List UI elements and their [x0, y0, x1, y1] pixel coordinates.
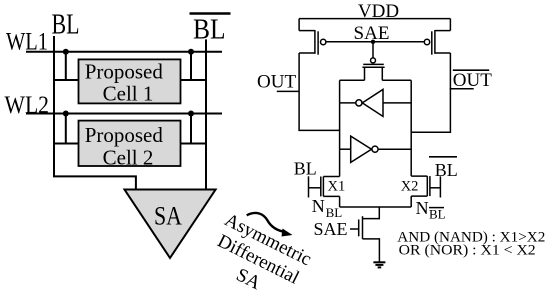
op-amp SA sense amplifier triangle: [125, 190, 216, 259]
wire OUT stub: [277, 90, 299, 92]
wire BLbar rail: [205, 39, 207, 189]
wire latch box right edge: [410, 80, 412, 176]
svg-text:Proposed: Proposed: [85, 60, 164, 84]
annotation Asymmetric Differential SA: [202, 210, 315, 291]
svg-text:BL: BL: [435, 160, 458, 180]
svg-text:X2: X2: [401, 178, 419, 194]
svg-text:VDD: VDD: [358, 1, 399, 22]
wire WL2: [26, 113, 222, 115]
node WL2-left junction: [63, 111, 69, 117]
node WL1-left junction: [63, 49, 69, 55]
label NBL: [312, 196, 342, 220]
wire cell1 right drop: [190, 52, 192, 80]
wire cell2 right drop: [190, 114, 192, 144]
node SAE junction: [371, 40, 375, 44]
svg-text:WL1: WL1: [6, 29, 48, 56]
transistor X1 NMOS pass left: [309, 176, 340, 207]
wire OUTbar stub: [450, 88, 474, 90]
svg-text:BL: BL: [52, 9, 80, 40]
wire WL1: [26, 51, 222, 53]
wire OUT node: [299, 53, 340, 130]
svg-text:Proposed: Proposed: [85, 123, 164, 147]
wire N rail tap: [363, 207, 380, 219]
transistor X2 NMOS pass right: [411, 176, 440, 207]
svg-text:SAE: SAE: [314, 219, 348, 239]
wire OUTbar node: [411, 53, 450, 132]
inverter U3 upper (points left): [340, 89, 412, 116]
svg-text:BL: BL: [326, 205, 343, 220]
label BLbar left: [190, 14, 231, 46]
arrow squiggle: [247, 213, 293, 237]
svg-text:Cell 1: Cell 1: [103, 82, 154, 106]
label OUTbar: [453, 70, 492, 91]
svg-text:BL: BL: [193, 15, 226, 46]
inverter U4 lower (points right): [340, 136, 412, 162]
wire cell2 left drop: [65, 114, 67, 144]
svg-text:BL: BL: [294, 159, 317, 179]
transistor Q2 PMOS right: [424, 19, 450, 55]
wire BL rail: [54, 36, 136, 190]
wire cell1 left drop: [65, 52, 67, 80]
label NBLbar: [416, 198, 446, 222]
wire cell1 left stub: [54, 79, 79, 81]
cell U2 Proposed Cell 2: [79, 121, 181, 170]
svg-text:OUT: OUT: [453, 70, 492, 91]
wire latch box top left: [340, 79, 365, 81]
wire N rail: [340, 206, 412, 208]
wire cell2 left stub: [54, 143, 79, 145]
transistor Q3 PMOS equalizer: [362, 42, 384, 81]
svg-text:BL: BL: [429, 207, 446, 222]
wire latch box top right: [382, 79, 411, 81]
ground: [373, 262, 385, 267]
svg-text:Cell 2: Cell 2: [103, 146, 154, 170]
wire cell2 right stub: [181, 143, 207, 145]
svg-text:WL2: WL2: [5, 92, 50, 119]
svg-text:OR (NOR) : X1 < X2: OR (NOR) : X1 < X2: [399, 242, 536, 258]
node WL1-right junction: [188, 49, 194, 55]
svg-text:N: N: [416, 198, 429, 218]
transistor Q4 NMOS SAE: [350, 216, 379, 262]
cell U1 Proposed Cell 1: [79, 59, 181, 105]
svg-text:OUT: OUT: [257, 72, 296, 93]
wire latch box left edge: [339, 80, 341, 176]
node WL2-right junction: [188, 111, 194, 117]
wire SAE line: [326, 41, 424, 43]
transistor Q1 PMOS left: [299, 19, 326, 55]
label BLbar (X2 gate): [429, 157, 458, 180]
svg-text:SA: SA: [154, 202, 182, 231]
svg-text:SAE: SAE: [354, 23, 390, 44]
svg-text:X1: X1: [328, 178, 346, 194]
svg-text:N: N: [312, 196, 325, 216]
wire cell1 right stub: [181, 79, 207, 81]
wire VDD rail: [299, 18, 450, 20]
